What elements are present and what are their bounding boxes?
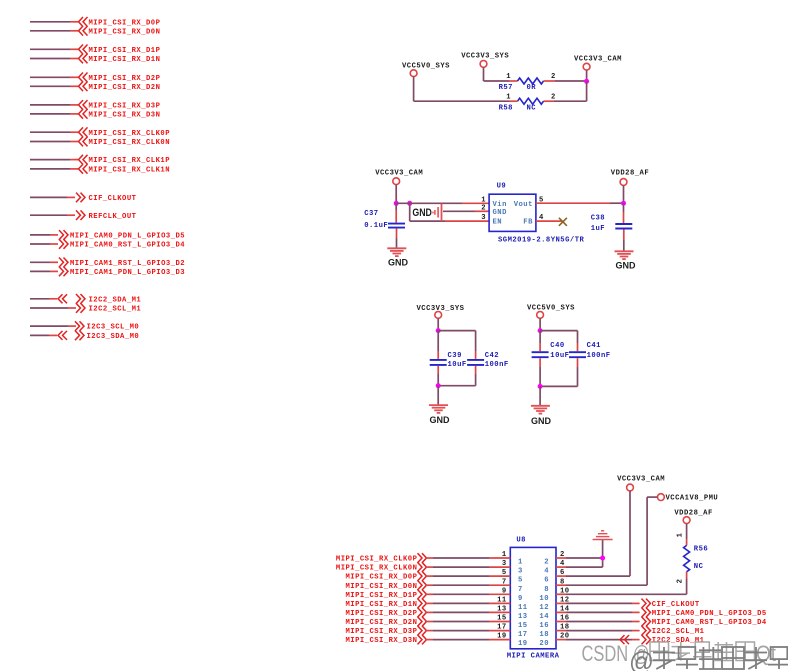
wire C42 branch lower — [475, 366, 477, 374]
ground (C39) — [429, 405, 448, 413]
wire U8 pin2 to GND node — [556, 557, 566, 559]
svg-text:C37: C37 — [364, 210, 378, 218]
wire net MIPI_CSI_RX_D2P — [30, 76, 70, 78]
port chevron I2C2_SDA_M1 (right) — [642, 635, 651, 645]
svg-text:MIPI_CSI_RX_CLK0P: MIPI_CSI_RX_CLK0P — [336, 556, 418, 564]
wire VCC3V3_SYS down — [437, 318, 439, 330]
svg-text:5: 5 — [502, 569, 507, 577]
wire C39 branch upper — [437, 331, 439, 351]
port chevron MIPI_CSI_RX_CLK1N — [79, 164, 88, 174]
svg-text:2: 2 — [551, 73, 556, 81]
svg-text:3: 3 — [518, 568, 523, 576]
wire VCC3V3_SYS down — [483, 67, 485, 81]
svg-text:MIPI_CSI_RX_D0N: MIPI_CSI_RX_D0N — [89, 28, 161, 36]
wire net I2C3_SDA_M0 — [30, 334, 49, 336]
wire net MIPI_CSI_RX_D3N — [30, 113, 70, 115]
svg-text:MIPI_CAM0_RST_L_GPIO3_D4: MIPI_CAM0_RST_L_GPIO3_D4 — [652, 619, 767, 627]
wire VCC3V3_SYS to R57 pin1 — [484, 80, 510, 82]
no-connect X on FB — [559, 218, 567, 226]
wire net MIPI_CAM0_PDN_L_GPIO3_D5 — [30, 234, 50, 236]
svg-text:0.1uF: 0.1uF — [364, 222, 388, 230]
svg-text:MIPI_CSI_RX_D3N: MIPI_CSI_RX_D3N — [345, 637, 417, 645]
svg-text:MIPI_CSI_RX_D2P: MIPI_CSI_RX_D2P — [345, 610, 417, 618]
svg-text:NC: NC — [694, 563, 704, 571]
svg-text:MIPI_CSI_RX_D0P: MIPI_CSI_RX_D0P — [89, 19, 161, 27]
svg-text:1: 1 — [518, 559, 523, 567]
svg-text:19: 19 — [497, 633, 507, 641]
port chevron MIPI_CSI_RX_D3N — [79, 109, 88, 119]
svg-text:3: 3 — [481, 214, 486, 222]
svg-text:11: 11 — [518, 604, 528, 612]
wire to R58 pin2 — [554, 100, 587, 102]
svg-text:C38: C38 — [591, 214, 605, 222]
svg-text:9: 9 — [518, 595, 523, 603]
svg-text:10uF: 10uF — [550, 352, 569, 360]
port chevron MIPI_CSI_RX_D0P — [79, 17, 88, 27]
wire MIPI_CSI_RX_D3N to U8 pin 19 — [425, 639, 433, 641]
junction node C37/Vin — [394, 201, 399, 206]
svg-text:3: 3 — [502, 560, 507, 568]
input chevron I2C3_SDA_M0 — [58, 331, 67, 340]
svg-text:7: 7 — [502, 578, 507, 586]
capacitor C39 — [430, 359, 447, 361]
wire net MIPI_CSI_RX_CLK1P — [30, 159, 70, 161]
wire net MIPI_CAM0_RST_L_GPIO3_D4 — [30, 243, 50, 245]
power VDD28_AF — [683, 517, 690, 524]
port chevron MIPI_CSI_RX_D2N — [79, 82, 88, 92]
svg-text:2: 2 — [544, 559, 549, 567]
regulator U9 body — [489, 194, 536, 231]
wire bottom rail C39-C42 — [438, 385, 475, 387]
power VCC5V0_SYS — [537, 312, 544, 319]
junction node U8 gnd — [600, 556, 605, 561]
svg-text:Vin: Vin — [493, 201, 507, 209]
wire net CIF_CLKOUT — [30, 196, 67, 198]
svg-text:NC: NC — [527, 104, 537, 112]
svg-text:6: 6 — [544, 577, 549, 585]
port chevron MIPI_CSI_RX_D0N — [79, 26, 88, 36]
power VCC3V3_CAM — [393, 178, 400, 185]
input chevron I2C2_SDA_M1 — [58, 294, 67, 303]
junction node C40 top — [538, 328, 543, 333]
ground (U8 pins 2/4, flipped) — [593, 531, 613, 540]
port chevron MIPI_CAM1_RST_L_GPIO3_D2 — [59, 258, 68, 268]
wire net MIPI_CSI_RX_CLK1N — [30, 168, 70, 170]
svg-text:1: 1 — [677, 532, 685, 537]
svg-text:13: 13 — [497, 606, 507, 614]
svg-text:C41: C41 — [587, 342, 602, 350]
wire VDD28_AF down — [623, 185, 625, 203]
port chevron MIPI_CSI_RX_D1P — [79, 45, 88, 55]
svg-text:100nF: 100nF — [587, 352, 611, 360]
wire C39 bottom to ground — [437, 386, 439, 405]
wire to U9 pin3 EN — [410, 220, 445, 222]
svg-text:2: 2 — [481, 205, 486, 213]
svg-text:17: 17 — [497, 624, 507, 632]
wire top rail C40-C41 — [540, 330, 577, 332]
wire pin8 row — [556, 584, 566, 586]
power VCC3V3_CAM — [583, 63, 590, 70]
svg-text:Vout: Vout — [514, 201, 533, 209]
svg-text:MIPI_CSI_RX_CLK1N: MIPI_CSI_RX_CLK1N — [89, 167, 170, 175]
wire net MIPI_CSI_RX_D1P — [30, 48, 70, 50]
wire VCC3V3_CAM stub — [586, 70, 588, 81]
port chevron MIPI_CSI_RX_CLK0P (U8) — [418, 553, 427, 563]
wire VCCA1V8_PMU down to pin8 — [646, 497, 648, 585]
wire net MIPI_CSI_RX_D0P — [30, 21, 70, 23]
ground (C38) — [615, 251, 634, 259]
svg-text:9: 9 — [502, 587, 507, 595]
wire net MIPI_CSI_RX_D1N — [30, 58, 70, 60]
wire C41 branch lower — [577, 358, 579, 367]
wire net MIPI_CSI_RX_D2N — [30, 85, 70, 87]
junction node VCC3V3_CAM — [584, 79, 589, 84]
svg-text:VCC3V3_SYS: VCC3V3_SYS — [461, 52, 509, 60]
port chevron CIF_CLKOUT (right) — [642, 599, 651, 609]
wire R58 pin1 to VCC5V0_SYS — [509, 100, 518, 102]
wire pin10 row — [556, 593, 566, 595]
port chevron MIPI_CSI_RX_D1P (U8) — [418, 590, 427, 600]
wire VCC3V3_CAM down to node — [395, 185, 397, 204]
svg-text:MIPI_CAM1_RST_L_GPIO3_D2: MIPI_CAM1_RST_L_GPIO3_D2 — [70, 260, 185, 268]
port chevron MIPI_CAM0_RST_L_GPIO3_D4 (right) — [642, 617, 651, 627]
capacitor C41 — [569, 351, 586, 353]
port chevron MIPI_CSI_RX_D2P — [79, 73, 88, 83]
wire MIPI_CSI_RX_D2P to U8 pin 13 — [425, 611, 433, 613]
svg-text:GND: GND — [388, 257, 409, 267]
svg-text:10: 10 — [539, 595, 549, 603]
connector U8 body — [510, 547, 556, 648]
port chevron I2C2_SCL_M1 (right) — [642, 626, 651, 636]
port chevron MIPI_CSI_RX_CLK1P — [79, 155, 88, 165]
input chevron I2C2_SDA_M1 (on wire) — [620, 635, 629, 644]
wire MIPI_CSI_RX_CLK0P to U8 pin 1 — [425, 557, 433, 559]
wire U8 to I2C2_SCL_M1 — [556, 630, 566, 632]
svg-text:REFCLK_OUT: REFCLK_OUT — [89, 213, 137, 221]
wire MIPI_CSI_RX_CLK0N to U8 pin 3 — [425, 566, 433, 568]
port chevron REFCLK_OUT — [76, 210, 85, 220]
wire net MIPI_CSI_RX_D0N — [30, 30, 70, 32]
svg-text:VCCA1V8_PMU: VCCA1V8_PMU — [666, 495, 719, 503]
ground (C37) — [387, 248, 406, 256]
svg-text:C42: C42 — [485, 352, 499, 360]
port chevron MIPI_CSI_RX_CLK0P — [79, 127, 88, 137]
svg-text:MIPI_CSI_RX_CLK1P: MIPI_CSI_RX_CLK1P — [89, 157, 171, 165]
wire MIPI_CSI_RX_D2N to U8 pin 15 — [425, 621, 433, 623]
svg-text:C39: C39 — [448, 352, 462, 360]
port chevron MIPI_CSI_RX_D1N — [79, 54, 88, 64]
port chevron MIPI_CSI_RX_D0N (U8) — [418, 580, 427, 590]
port chevron MIPI_CAM0_RST_L_GPIO3_D4 — [59, 239, 68, 249]
svg-text:MIPI_CSI_RX_D2P: MIPI_CSI_RX_D2P — [89, 75, 161, 83]
wire pin6 row — [556, 575, 566, 577]
svg-text:8: 8 — [544, 586, 549, 594]
junction node C40 bottom — [538, 384, 543, 389]
svg-text:GND: GND — [616, 261, 637, 271]
power VCC3V3_CAM — [627, 484, 634, 491]
wire MIPI_CSI_RX_D0P to U8 pin 5 — [425, 575, 433, 577]
port chevron MIPI_CSI_RX_D0P (U8) — [418, 571, 427, 581]
svg-text:GND: GND — [531, 416, 552, 426]
svg-text:100nF: 100nF — [485, 361, 509, 369]
port chevron MIPI_CSI_RX_D2P (U8) — [418, 608, 427, 618]
svg-text:VCC3V3_CAM: VCC3V3_CAM — [574, 56, 622, 64]
svg-text:I2C2_SDA_M1: I2C2_SDA_M1 — [89, 296, 142, 304]
power VCCA1V8_PMU — [658, 494, 665, 501]
wire C42 branch upper — [475, 331, 477, 351]
svg-text:MIPI_CSI_RX_D2N: MIPI_CSI_RX_D2N — [89, 84, 161, 92]
capacitor C42 — [467, 359, 484, 361]
svg-text:I2C3_SDA_M0: I2C3_SDA_M0 — [87, 333, 140, 341]
wire GND node vertical — [602, 558, 604, 567]
svg-text:MIPI_CSI_RX_D0P: MIPI_CSI_RX_D0P — [345, 574, 417, 582]
port chevron MIPI_CSI_RX_D3P — [79, 100, 88, 110]
wire C39 branch lower — [437, 366, 439, 374]
wire node to U9 pin1 Vin — [396, 202, 462, 204]
watermark CJK dark overlay — [629, 646, 788, 671]
svg-text:MIPI_CSI_RX_CLK0N: MIPI_CSI_RX_CLK0N — [336, 565, 417, 573]
junction node Vin/EN — [407, 201, 412, 206]
svg-text:VCC3V3_CAM: VCC3V3_CAM — [375, 170, 423, 178]
svg-text:FB: FB — [523, 219, 533, 227]
svg-text:4: 4 — [544, 568, 549, 576]
svg-text:CIF_CLKOUT: CIF_CLKOUT — [89, 195, 137, 203]
svg-text:17: 17 — [518, 631, 528, 639]
svg-text:10uF: 10uF — [448, 361, 467, 369]
svg-text:MIPI_CAM0_PDN_L_GPIO3_D5: MIPI_CAM0_PDN_L_GPIO3_D5 — [652, 610, 767, 618]
svg-text:@: @ — [629, 646, 654, 671]
port chevron MIPI_CSI_RX_D1N (U8) — [418, 599, 427, 609]
watermark CJK light — [650, 642, 755, 661]
capacitor C40 — [532, 351, 549, 353]
svg-text:18: 18 — [539, 631, 549, 639]
port chevron I2C2_SCL_M1 — [76, 303, 85, 313]
svg-text:2: 2 — [551, 93, 556, 101]
svg-text:5: 5 — [518, 577, 523, 585]
wire net REFCLK_OUT — [30, 214, 67, 216]
ground (C40) — [531, 406, 550, 414]
wire net I2C2_SDA_M1 — [30, 298, 49, 300]
wire node to C37 top — [395, 203, 397, 210]
port chevron MIPI_CSI_RX_CLK0N — [79, 137, 88, 147]
port chevron MIPI_CSI_RX_D3N (U8) — [418, 635, 427, 645]
power VDD28_AF — [620, 179, 627, 186]
wire node to C38 top — [623, 203, 625, 212]
svg-text:1: 1 — [502, 551, 507, 559]
svg-text:R57: R57 — [499, 84, 513, 92]
power VCC3V3_SYS — [435, 312, 442, 319]
port chevron MIPI_CSI_RX_D3P (U8) — [418, 626, 427, 636]
svg-text:VCC5V0_SYS: VCC5V0_SYS — [402, 63, 450, 71]
svg-text:MIPI CAMERA: MIPI CAMERA — [507, 653, 560, 661]
svg-text:GND: GND — [493, 209, 508, 217]
svg-text:VDD28_AF: VDD28_AF — [611, 170, 649, 178]
wire MIPI_CSI_RX_D3P to U8 pin 17 — [425, 630, 433, 632]
port chevron CIF_CLKOUT — [76, 193, 85, 203]
svg-text:SGM2019-2.8YN5G/TR: SGM2019-2.8YN5G/TR — [498, 237, 584, 245]
svg-text:2: 2 — [677, 579, 685, 584]
port chevron I2C3_SCL_M0 — [75, 321, 84, 331]
junction node C39 bottom — [436, 383, 441, 388]
wire net I2C2_SCL_M1 — [30, 307, 68, 309]
svg-text:20: 20 — [539, 640, 549, 648]
junction node C39 top — [436, 328, 441, 333]
svg-text:MIPI_CAM0_PDN_L_GPIO3_D5: MIPI_CAM0_PDN_L_GPIO3_D5 — [70, 233, 185, 241]
svg-text:MIPI_CSI_RX_CLK0N: MIPI_CSI_RX_CLK0N — [89, 139, 170, 147]
svg-text:MIPI_CSI_RX_D1P: MIPI_CSI_RX_D1P — [89, 47, 161, 55]
svg-text:11: 11 — [497, 597, 507, 605]
svg-text:VCC3V3_CAM: VCC3V3_CAM — [617, 476, 665, 484]
svg-text:7: 7 — [518, 586, 523, 594]
wire bottom rail C40-C41 — [540, 385, 577, 387]
svg-text:16: 16 — [539, 622, 549, 630]
port chevron MIPI_CSI_RX_D2N (U8) — [418, 617, 427, 627]
power VCC3V3_SYS — [480, 61, 487, 68]
port chevron MIPI_CAM1_PDN_L_GPIO3_D3 — [59, 267, 68, 277]
wire U8 pin4 to GND node — [556, 566, 566, 568]
wire U8 to CIF_CLKOUT — [556, 602, 566, 604]
svg-text:12: 12 — [539, 604, 549, 612]
wire MIPI_CSI_RX_D1N to U8 pin 11 — [425, 602, 433, 604]
svg-text:EN: EN — [493, 219, 503, 227]
svg-text:R56: R56 — [694, 546, 708, 554]
capacitor C38 — [615, 223, 632, 225]
wire net MIPI_CSI_RX_CLK0P — [30, 131, 70, 133]
svg-text:1: 1 — [506, 73, 511, 81]
wire node down to EN rail — [409, 203, 411, 221]
wire U8 to I2C2_SDA_M1 — [556, 639, 566, 641]
svg-text:1: 1 — [506, 93, 511, 101]
svg-text:CIF_CLKOUT: CIF_CLKOUT — [652, 601, 700, 609]
wire VCC5V0_SYS down — [413, 77, 415, 102]
wire VCC5V0_SYS down — [539, 318, 541, 330]
svg-text:C40: C40 — [550, 342, 564, 350]
wire net I2C3_SCL_M0 — [30, 325, 68, 327]
svg-text:MIPI_CSI_RX_D1N: MIPI_CSI_RX_D1N — [345, 601, 417, 609]
ground symbol sideways (U9 pin2) — [433, 204, 442, 222]
svg-text:I2C2_SCL_M1: I2C2_SCL_M1 — [89, 306, 142, 314]
svg-text:MIPI_CSI_RX_D1P: MIPI_CSI_RX_D1P — [345, 592, 417, 600]
svg-text:I2C2_SCL_M1: I2C2_SCL_M1 — [652, 628, 705, 636]
wire VCC3V3_CAM down to pin6 — [629, 491, 631, 576]
svg-text:U9: U9 — [497, 183, 507, 191]
svg-text:GND: GND — [412, 207, 432, 219]
port chevron MIPI_CAM0_PDN_L_GPIO3_D5 (right) — [642, 608, 651, 618]
svg-text:MIPI_CSI_RX_D3N: MIPI_CSI_RX_D3N — [89, 112, 161, 120]
wire VCCA1V8_PMU left — [647, 496, 657, 498]
wire MIPI_CSI_RX_D1P to U8 pin 9 — [425, 593, 433, 595]
port chevron I2C2_SDA_M1 — [76, 294, 85, 304]
wire U9 pin5 Vout to VDD28_AF node — [536, 202, 610, 204]
svg-text:13: 13 — [518, 613, 528, 621]
svg-text:1uF: 1uF — [591, 225, 605, 233]
wire VDD28_AF down to R56 — [686, 524, 688, 540]
wire C37 bottom to ground — [396, 229, 398, 238]
svg-text:U8: U8 — [516, 537, 526, 545]
svg-text:1: 1 — [481, 196, 486, 204]
svg-text:MIPI_CSI_RX_CLK0P: MIPI_CSI_RX_CLK0P — [89, 130, 171, 138]
wire net MIPI_CSI_RX_D3P — [30, 104, 70, 106]
svg-text:VCC5V0_SYS: VCC5V0_SYS — [527, 305, 575, 313]
svg-text:14: 14 — [539, 613, 549, 621]
wire C40 branch upper — [539, 331, 541, 343]
svg-text:MIPI_CSI_RX_D0N: MIPI_CSI_RX_D0N — [345, 583, 417, 591]
wire top rail C39-C42 — [438, 330, 475, 332]
svg-text:I2C3_SCL_M0: I2C3_SCL_M0 — [87, 324, 140, 332]
wire R56 down to pin10 row — [686, 572, 688, 579]
wire net MIPI_CAM1_PDN_L_GPIO3_D3 — [30, 270, 50, 272]
svg-text:15: 15 — [518, 622, 528, 630]
svg-text:MIPI_CSI_RX_D3P: MIPI_CSI_RX_D3P — [345, 628, 417, 636]
capacitor C37 — [388, 223, 405, 225]
junction node VDD28_AF/C38 — [621, 201, 626, 206]
resistor R56 — [684, 545, 690, 571]
wire U9 pin4 FB stub — [536, 220, 562, 222]
svg-text:MIPI_CSI_RX_D3P: MIPI_CSI_RX_D3P — [89, 103, 161, 111]
svg-text:GND: GND — [430, 415, 451, 425]
resistor R57 — [518, 78, 544, 84]
wire C41 branch upper — [577, 331, 579, 343]
wire U8 to MIPI_CAM0_RST_L_GPIO3_D4 — [556, 621, 566, 623]
wire GND to U9 pin2 — [443, 210, 475, 212]
wire U8 to MIPI_CAM0_PDN_L_GPIO3_D5 — [556, 611, 566, 613]
svg-text:15: 15 — [497, 615, 507, 623]
wire C38 bottom to ground — [623, 230, 625, 241]
svg-text:MIPI_CSI_RX_D2N: MIPI_CSI_RX_D2N — [345, 619, 417, 627]
svg-text:MIPI_CAM0_RST_L_GPIO3_D4: MIPI_CAM0_RST_L_GPIO3_D4 — [70, 242, 185, 250]
port chevron MIPI_CSI_RX_CLK0N (U8) — [418, 562, 427, 572]
svg-text:VDD28_AF: VDD28_AF — [674, 510, 712, 518]
resistor R58 — [518, 98, 544, 104]
wire junction down — [586, 81, 588, 101]
wire C40 branch lower — [539, 358, 541, 367]
svg-text:R58: R58 — [499, 104, 513, 112]
wire C40 bottom to ground — [539, 386, 541, 405]
port chevron I2C3_SDA_M0 — [75, 331, 84, 341]
svg-text:19: 19 — [518, 640, 528, 648]
power VCC5V0_SYS — [410, 70, 417, 77]
svg-text:0R: 0R — [527, 84, 537, 92]
wire R57 pin2 to VCC3V3_CAM — [544, 80, 556, 82]
svg-text:MIPI_CAM1_PDN_L_GPIO3_D3: MIPI_CAM1_PDN_L_GPIO3_D3 — [70, 269, 185, 277]
port chevron MIPI_CAM0_PDN_L_GPIO3_D5 — [59, 230, 68, 240]
wire net MIPI_CSI_RX_CLK0N — [30, 141, 70, 143]
svg-text:MIPI_CSI_RX_D1N: MIPI_CSI_RX_D1N — [89, 56, 161, 64]
wire GND node up to ground — [602, 540, 604, 558]
wire net MIPI_CAM1_RST_L_GPIO3_D2 — [30, 261, 50, 263]
wire MIPI_CSI_RX_D0N to U8 pin 7 — [425, 584, 433, 586]
